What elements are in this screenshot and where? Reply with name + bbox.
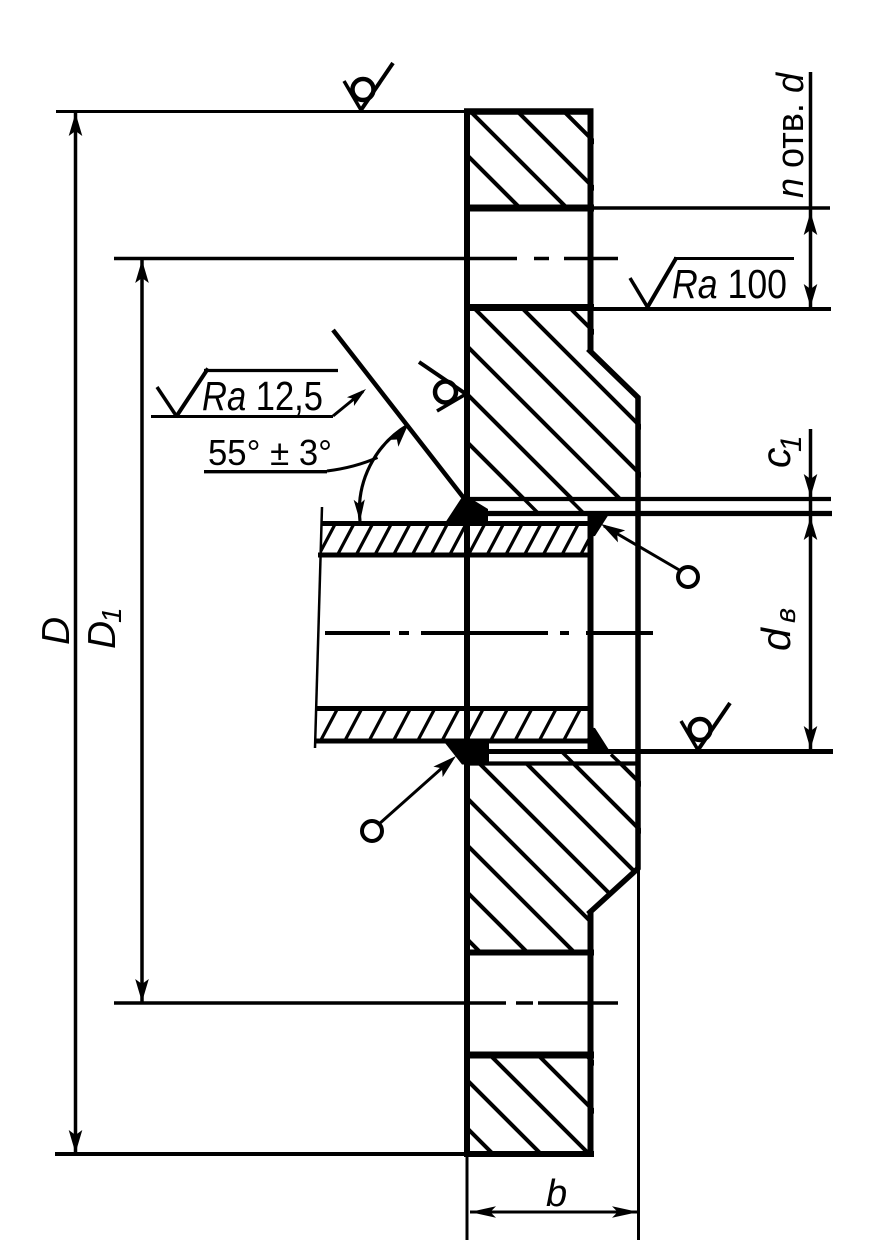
svg-text:n отв. d: n отв. d bbox=[770, 71, 812, 198]
svg-text:55° ± 3°: 55° ± 3° bbox=[208, 432, 332, 473]
svg-text:1: 1 bbox=[96, 607, 127, 623]
svg-text:Ra 100: Ra 100 bbox=[672, 261, 787, 307]
svg-text:D: D bbox=[81, 621, 124, 649]
svg-text:D: D bbox=[35, 617, 78, 645]
svg-text:d: d bbox=[753, 627, 799, 651]
svg-text:в: в bbox=[770, 608, 802, 623]
svg-text:b: b bbox=[546, 1173, 567, 1215]
svg-text:Ra 12,5: Ra 12,5 bbox=[202, 373, 323, 419]
svg-text:1: 1 bbox=[775, 435, 808, 452]
